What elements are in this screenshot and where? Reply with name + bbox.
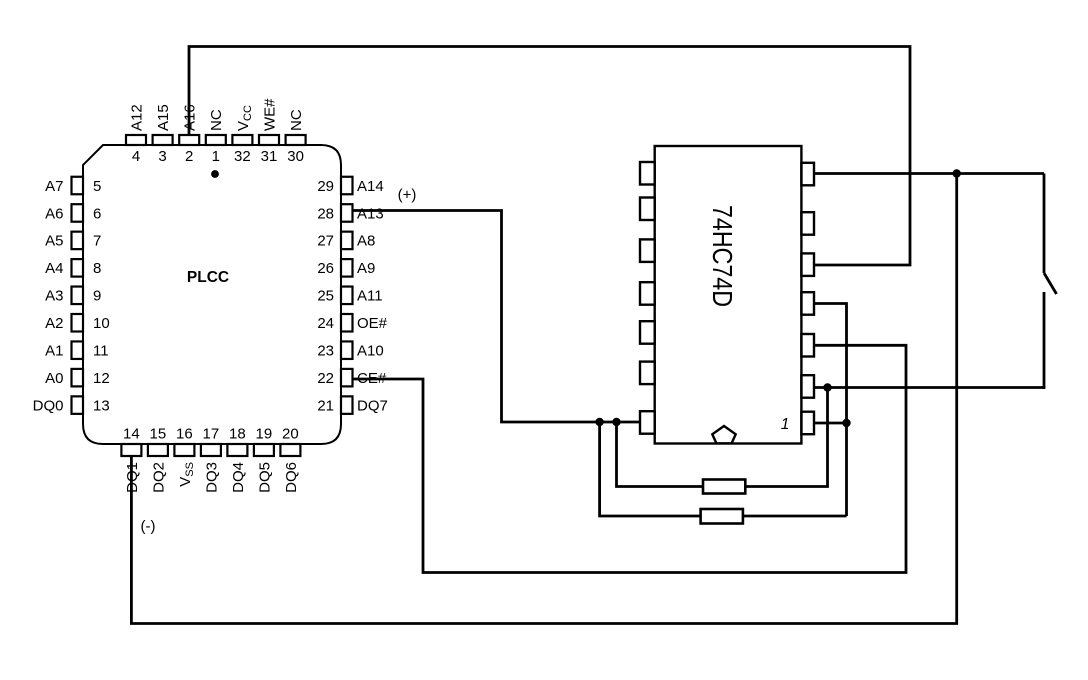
pin 15 pad [148,444,168,456]
wire U2 pin R4 down to resistor R2 right lead [814,304,847,517]
svg-text:9: 9 [93,288,101,305]
svg-text:8: 8 [93,260,101,277]
PLCC pin-1 index dot [211,170,219,178]
wire CE# pin22 to U2 pin R5 [353,345,907,572]
pin 24 pad [341,314,353,332]
svg-text:A6: A6 [45,205,63,222]
svg-text:PLCC: PLCC [187,269,229,286]
svg-text:A7: A7 [45,178,63,195]
svg-text:19: 19 [256,426,273,443]
pin 27 pad [341,232,353,250]
wire A13 pin28 to U2 pin L7 [353,211,641,423]
svg-text:21: 21 [317,397,334,414]
pin 29 pad [341,177,353,195]
svg-text:NC: NC [208,109,225,131]
svg-text:A4: A4 [45,260,63,277]
PLCC chip U1 body [83,145,341,444]
U2 right pin R3 [801,253,814,276]
pin 32 pad [232,135,252,145]
svg-text:7: 7 [93,233,101,250]
svg-text:25: 25 [317,288,334,305]
svg-text:24: 24 [317,315,334,332]
U2 left pin L7 [640,411,655,434]
pin 17 pad [201,444,221,456]
pin 20 pad [280,444,300,456]
U2 right pin R7 [801,412,814,435]
svg-text:17: 17 [203,426,220,443]
junction node on pin R7 wire [842,419,850,427]
svg-text:3: 3 [158,148,166,165]
svg-text:11: 11 [93,343,109,360]
svg-text:DQ2: DQ2 [150,462,167,493]
wire resistor R2 left lead to node at U2 pin L7 [600,422,701,516]
svg-text:DQ0: DQ0 [33,397,64,414]
svg-text:31: 31 [261,148,278,165]
pin 25 pad [341,287,353,305]
pin 1 pad [206,135,226,145]
pin 18 pad [227,444,247,456]
pin 26 pad [341,259,353,277]
pin 8 pad [72,259,84,277]
svg-text:(-): (-) [141,518,156,535]
svg-text:28: 28 [317,205,334,222]
pin 13 pad [72,396,84,414]
svg-text:32: 32 [234,148,251,165]
U2 pin-1 pentagon index [712,426,735,443]
svg-text:30: 30 [287,148,304,165]
svg-text:22: 22 [317,370,334,387]
pins right column [341,177,353,414]
junction node A on pin L7 wire [595,418,603,426]
svg-text:A1: A1 [45,343,63,360]
svg-text:DQ3: DQ3 [203,462,220,493]
svg-text:12: 12 [93,370,110,387]
pins top row [126,135,306,145]
pin 22 pad [341,369,353,387]
svg-text:WE#: WE# [261,98,278,131]
svg-text:A15: A15 [155,104,172,131]
pin 4 pad [126,135,146,145]
svg-text:A0: A0 [45,370,63,387]
svg-text:OE#: OE# [357,315,388,332]
svg-text:15: 15 [150,426,167,443]
svg-text:10: 10 [93,315,110,332]
U2 left pin L1 [640,162,655,185]
U2 left pin L2 [640,198,655,221]
wire switch lower lead [1043,292,1046,388]
svg-text:13: 13 [93,397,110,414]
svg-text:A8: A8 [357,233,375,250]
pin 21 pad [341,396,353,414]
wire U2 pin R1 to switch top [814,172,1044,175]
svg-text:A5: A5 [45,233,63,250]
svg-text:74HC74D: 74HC74D [707,205,738,307]
pins left column [72,177,84,414]
wire resistor R1 left lead to node at U2 pin L7 [617,422,704,487]
pin 10 pad [72,314,84,332]
svg-text:A14: A14 [357,178,384,195]
svg-text:4: 4 [132,148,140,165]
svg-text:DQ7: DQ7 [357,397,388,414]
svg-text:A12: A12 [128,104,145,131]
switch SW1 blade [1044,273,1057,294]
pin 9 pad [72,287,84,305]
svg-text:A9: A9 [357,260,375,277]
U2 right pin R6 [801,375,814,398]
junction node on R1 wire [953,169,961,177]
U2 right pin R2 [801,212,814,235]
svg-text:NC: NC [288,109,305,131]
pin 19 pad [254,444,274,456]
svg-text:DQ4: DQ4 [230,462,247,493]
U2 left pin L6 [640,362,655,385]
svg-text:20: 20 [282,426,299,443]
svg-text:16: 16 [176,426,193,443]
pin 7 pad [72,232,84,250]
wire resistor R2 right lead [743,515,847,518]
svg-text:14: 14 [123,426,140,443]
pin 3 pad [153,135,173,145]
U2 right pin R5 [801,334,814,357]
resistor R2 [701,509,743,524]
svg-text:1: 1 [212,148,220,165]
pin 2 pad [179,135,199,145]
U2 left pin L5 [640,321,655,344]
U2 left pin L4 [640,282,655,305]
pin 28 pad [341,204,353,222]
74HC74D chip U2 body [655,146,802,444]
svg-text:(+): (+) [398,187,417,204]
wire U2 pin R7 stub [814,422,847,425]
pin 12 pad [72,369,84,387]
pin 16 pad [174,444,194,456]
wire resistor R1 right lead up to pin R6 net [745,388,827,487]
svg-text:A11: A11 [357,288,383,305]
wire U2 pin R6 to switch bottom [814,388,1044,390]
svg-text:DQ6: DQ6 [283,462,300,493]
U2 right pin R1 [801,163,814,186]
U2 right pin R4 [801,292,814,315]
svg-text:23: 23 [317,343,334,360]
wire switch upper lead [1043,174,1046,274]
resistor R1 [703,480,745,494]
wire DQ1 pin14 to U2 pin R1 net [131,174,956,624]
svg-text:DQ5: DQ5 [256,462,273,493]
svg-text:18: 18 [229,426,246,443]
U2 left pin L3 [640,239,655,262]
pins bottom row [121,444,300,456]
junction node B on pin L7 wire [612,418,620,426]
svg-text:A10: A10 [357,343,384,360]
pin 31 pad [259,135,279,145]
pin 5 pad [72,177,84,195]
pin 6 pad [72,204,84,222]
pin 14 pad [121,444,141,456]
svg-text:5: 5 [93,178,101,195]
svg-text:6: 6 [93,205,101,222]
svg-text:1: 1 [781,416,790,433]
svg-text:2: 2 [185,148,193,165]
svg-text:26: 26 [317,260,334,277]
pin 30 pad [286,135,306,145]
svg-text:27: 27 [317,233,334,250]
svg-text:A3: A3 [45,288,63,305]
wire A16 pin2 to U2 pin R3 [189,47,910,266]
svg-text:29: 29 [317,178,334,195]
svg-text:A13: A13 [357,205,384,222]
pin 23 pad [341,341,353,359]
pin 11 pad [72,341,84,359]
junction node on pin R6 wire [823,383,831,391]
svg-text:A2: A2 [45,315,63,332]
